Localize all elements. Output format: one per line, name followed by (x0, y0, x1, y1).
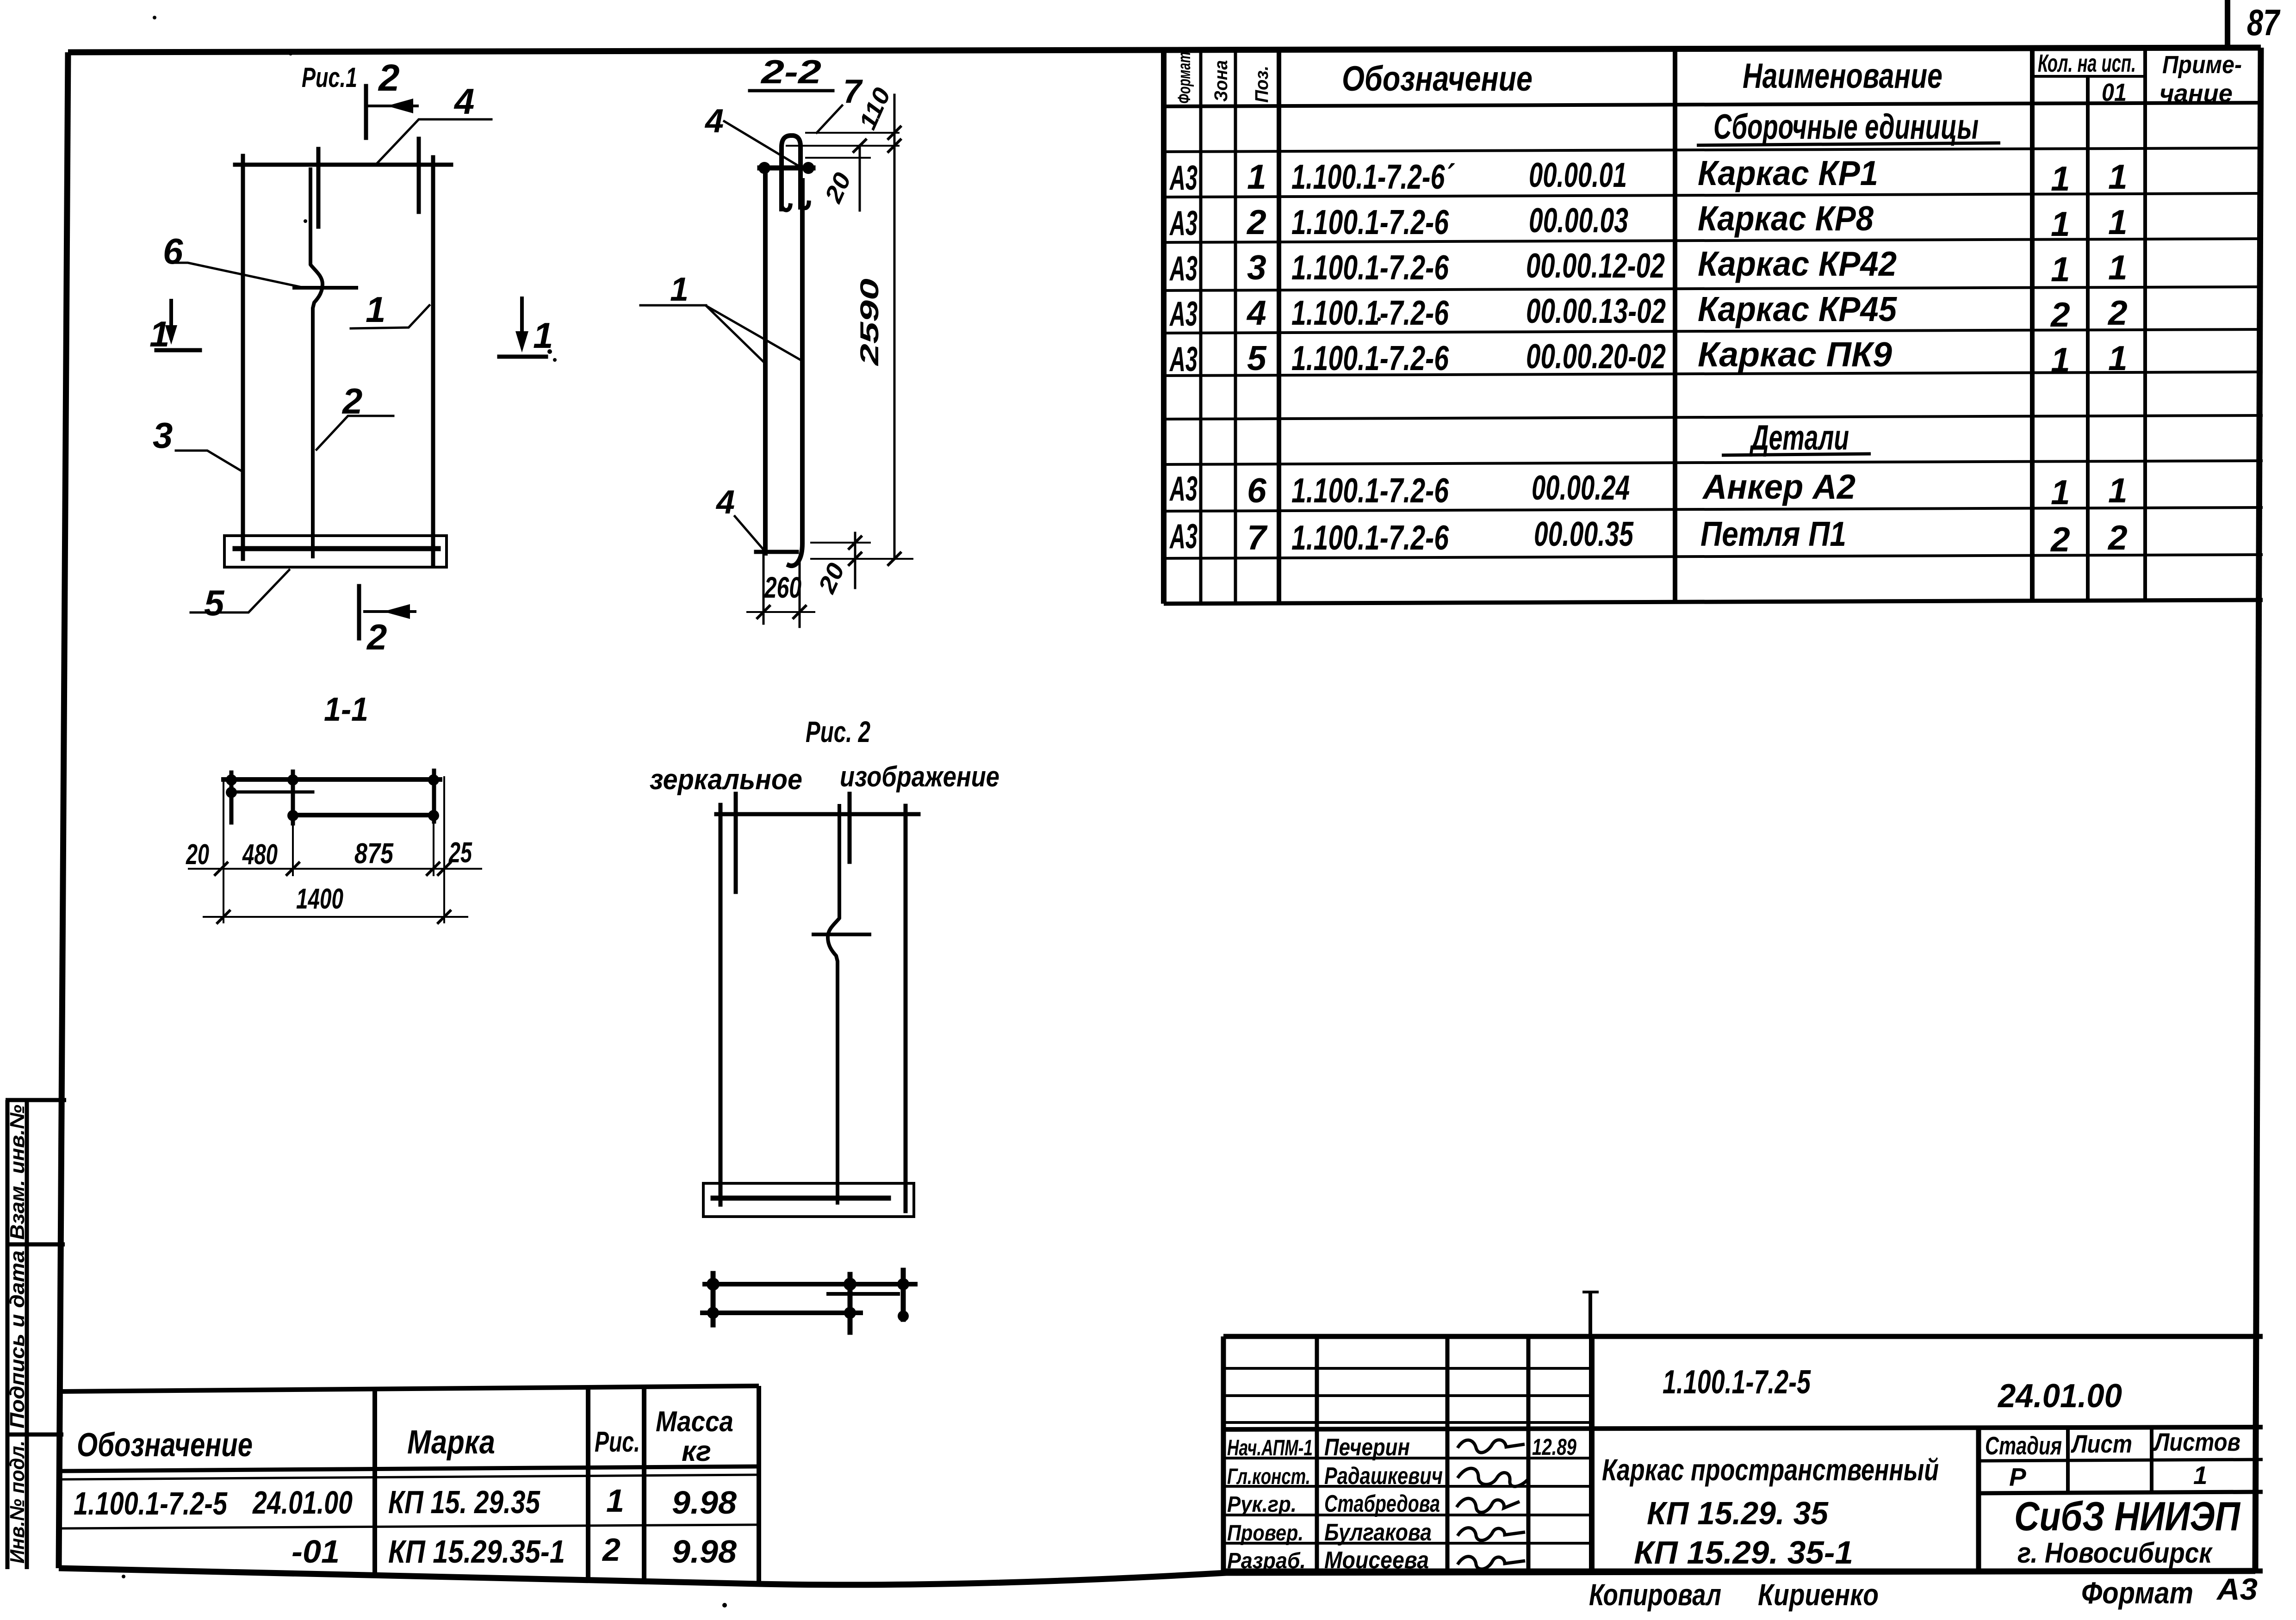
svg-text:9.98: 9.98 (672, 1533, 737, 1570)
svg-text:зеркальное: зеркальное (650, 764, 802, 796)
svg-text:Каркас КР1: Каркас КР1 (1698, 154, 1878, 192)
svg-text:5: 5 (1247, 339, 1267, 377)
svg-text:Формат: Формат (1175, 52, 1194, 104)
svg-text:КП 15.29.35-1: КП 15.29.35-1 (388, 1533, 565, 1570)
svg-text:Масса: Масса (656, 1406, 733, 1438)
svg-text:7: 7 (843, 73, 863, 110)
svg-text:изображение: изображение (840, 761, 999, 793)
svg-text:12.89: 12.89 (1532, 1434, 1576, 1460)
svg-text:2: 2 (366, 617, 387, 657)
svg-text:Булгакова: Булгакова (1324, 1519, 1432, 1546)
svg-text:Обозначение: Обозначение (77, 1427, 253, 1464)
svg-text:2: 2 (2107, 518, 2128, 557)
svg-text:А3: А3 (1169, 517, 1198, 556)
svg-text:Моисеева: Моисеева (1324, 1547, 1429, 1574)
svg-text:4: 4 (1246, 293, 1266, 332)
svg-text:00.00.01: 00.00.01 (1529, 155, 1627, 194)
svg-text:кг: кг (682, 1435, 711, 1467)
svg-text:Листов: Листов (2153, 1428, 2240, 1456)
svg-text:7: 7 (1247, 518, 1268, 557)
svg-text:А3: А3 (1169, 294, 1198, 333)
svg-text:2: 2 (378, 57, 400, 99)
svg-text:Каркас ПК9: Каркас ПК9 (1698, 335, 1892, 374)
svg-text:А3: А3 (1169, 249, 1198, 288)
svg-text:Р: Р (2009, 1463, 2026, 1491)
svg-text:2590: 2590 (855, 278, 884, 366)
svg-text:3: 3 (153, 415, 173, 456)
svg-text:Каркас КР45: Каркас КР45 (1698, 290, 1897, 328)
svg-text:1.100.1-7.2-5: 1.100.1-7.2-5 (74, 1485, 228, 1521)
svg-text:1: 1 (2108, 471, 2128, 510)
svg-text:1.100.1-7.2-6´: 1.100.1-7.2-6´ (1291, 157, 1455, 196)
svg-text:1: 1 (1247, 157, 1266, 196)
svg-text:Каркас пространственный: Каркас пространственный (1602, 1453, 1939, 1487)
svg-text:Марка: Марка (407, 1424, 495, 1461)
svg-text:Рис. 2: Рис. 2 (806, 715, 870, 748)
svg-text:1.100.1-7.2-6: 1.100.1-7.2-6 (1291, 203, 1449, 241)
svg-text:КП 15. 29.35: КП 15. 29.35 (388, 1484, 540, 1520)
svg-text:1.100.1-7.2-6: 1.100.1-7.2-6 (1291, 339, 1449, 377)
svg-text:1: 1 (670, 271, 689, 308)
svg-text:1.100.1-7.2-5: 1.100.1-7.2-5 (1663, 1364, 1811, 1401)
svg-text:Гл.конст.: Гл.конст. (1227, 1465, 1310, 1489)
svg-text:Стабредова: Стабредова (1324, 1490, 1440, 1517)
svg-text:Наименование: Наименование (1743, 56, 1942, 96)
svg-text:00.00.24: 00.00.24 (1532, 468, 1630, 507)
svg-text:3: 3 (1247, 248, 1266, 287)
svg-text:24.01.00: 24.01.00 (252, 1484, 353, 1521)
svg-text:Петля П1: Петля П1 (1700, 514, 1846, 553)
svg-text:2: 2 (602, 1532, 621, 1568)
svg-text:1.100.1-7.2-6: 1.100.1-7.2-6 (1291, 518, 1449, 557)
svg-text:00.00.35: 00.00.35 (1534, 514, 1634, 553)
svg-text:Кол. на исп.: Кол. на исп. (2038, 49, 2136, 77)
svg-text:00.00.03: 00.00.03 (1529, 201, 1628, 240)
svg-text:1: 1 (2193, 1461, 2208, 1490)
svg-text:1400: 1400 (296, 883, 343, 915)
svg-text:чание: чание (2159, 80, 2233, 107)
svg-text:2: 2 (2050, 295, 2070, 334)
svg-text:Зона: Зона (1211, 60, 1231, 102)
svg-text:1: 1 (2051, 473, 2070, 512)
svg-text:Радашкевич: Радашкевич (1324, 1463, 1443, 1490)
svg-text:Стадия: Стадия (1985, 1431, 2062, 1460)
svg-text:4: 4 (704, 103, 724, 140)
svg-text:СибЗ НИИЭП: СибЗ НИИЭП (2014, 1493, 2240, 1539)
svg-text:1.100.1-7.2-6: 1.100.1-7.2-6 (1291, 248, 1449, 287)
svg-text:1: 1 (606, 1483, 624, 1519)
svg-text:87: 87 (2247, 2, 2281, 43)
svg-text:1: 1 (366, 289, 385, 330)
svg-text:6: 6 (1247, 471, 1267, 510)
svg-text:1: 1 (2051, 204, 2070, 243)
svg-text:1: 1 (2051, 340, 2070, 379)
svg-text:Формат: Формат (2081, 1576, 2193, 1610)
svg-text:Печерин: Печерин (1324, 1434, 1410, 1461)
svg-text:24.01.00: 24.01.00 (1997, 1378, 2122, 1415)
svg-text:01: 01 (2102, 79, 2127, 106)
svg-text:1: 1 (2051, 250, 2070, 289)
svg-text:20: 20 (820, 169, 857, 207)
svg-text:Поз.: Поз. (1252, 66, 1272, 103)
svg-text:Сборочные единицы: Сборочные единицы (1713, 107, 1979, 147)
svg-text:1.100.1-7.2-6: 1.100.1-7.2-6 (1291, 293, 1449, 332)
svg-text:25: 25 (448, 837, 472, 869)
svg-text:А3: А3 (1169, 340, 1198, 378)
svg-text:20: 20 (186, 839, 209, 871)
svg-text:875: 875 (354, 838, 394, 870)
svg-text:Детали: Детали (1749, 418, 1849, 458)
svg-text:1: 1 (2108, 248, 2128, 287)
svg-text:Провер.: Провер. (1227, 1521, 1303, 1546)
svg-text:Рук.гр.: Рук.гр. (1227, 1492, 1297, 1517)
svg-text:Инв.№ подл.: Инв.№ подл. (6, 1441, 29, 1564)
svg-text:260: 260 (764, 571, 801, 604)
svg-text:480: 480 (242, 839, 278, 871)
svg-text:Лист: Лист (2071, 1429, 2132, 1458)
svg-text:А3: А3 (1169, 204, 1198, 242)
svg-text:Рис.1: Рис.1 (302, 62, 357, 93)
svg-text:А3: А3 (1169, 158, 1198, 197)
svg-text:А3: А3 (2216, 1572, 2258, 1606)
svg-text:-01: -01 (292, 1533, 340, 1570)
svg-text:КП 15.29. 35: КП 15.29. 35 (1647, 1495, 1829, 1531)
svg-text:Обозначение: Обозначение (1342, 59, 1533, 99)
svg-text:1: 1 (2051, 159, 2070, 198)
svg-text:1.100.1-7.2-6: 1.100.1-7.2-6 (1291, 471, 1449, 510)
svg-text:1-1: 1-1 (324, 691, 368, 728)
svg-text:Нач.АПМ-1: Нач.АПМ-1 (1227, 1436, 1313, 1460)
svg-text:2-2: 2-2 (760, 54, 821, 91)
svg-text:А3: А3 (1169, 469, 1198, 508)
svg-text:00.00.20-02: 00.00.20-02 (1526, 337, 1666, 376)
svg-text:Подпись и дата: Подпись и дата (6, 1250, 29, 1428)
svg-text:Анкер А2: Анкер А2 (1702, 467, 1855, 506)
svg-text:Копировал: Копировал (1589, 1577, 1721, 1612)
svg-text:2: 2 (2107, 293, 2128, 332)
svg-text:6: 6 (163, 231, 183, 272)
svg-text:2: 2 (1246, 203, 1266, 241)
svg-text:20: 20 (813, 559, 850, 598)
svg-text:Рис.: Рис. (595, 1426, 640, 1458)
svg-text:1: 1 (2108, 203, 2128, 241)
svg-text:Разраб.: Разраб. (1227, 1549, 1306, 1573)
svg-text:2: 2 (2050, 520, 2070, 559)
svg-text:00.00.12-02: 00.00.12-02 (1526, 246, 1665, 285)
svg-text:5: 5 (204, 582, 225, 623)
svg-text:Кириенко: Кириенко (1758, 1577, 1879, 1612)
svg-text:00.00.13-02: 00.00.13-02 (1526, 291, 1666, 330)
svg-text:1: 1 (2108, 339, 2128, 377)
svg-text:Каркас КР42: Каркас КР42 (1698, 244, 1897, 283)
svg-text:9.98: 9.98 (672, 1484, 737, 1521)
svg-text:1: 1 (2108, 157, 2128, 196)
svg-text:Приме-: Приме- (2162, 51, 2242, 79)
svg-text:Взам. инв.№: Взам. инв.№ (6, 1105, 29, 1240)
svg-text:Каркас КР8: Каркас КР8 (1698, 199, 1874, 238)
svg-text:КП 15.29. 35-1: КП 15.29. 35-1 (1634, 1534, 1853, 1571)
svg-text:г. Новосибирск: г. Новосибирск (2017, 1537, 2213, 1569)
svg-text:4: 4 (453, 81, 474, 122)
svg-text:4: 4 (715, 484, 735, 521)
